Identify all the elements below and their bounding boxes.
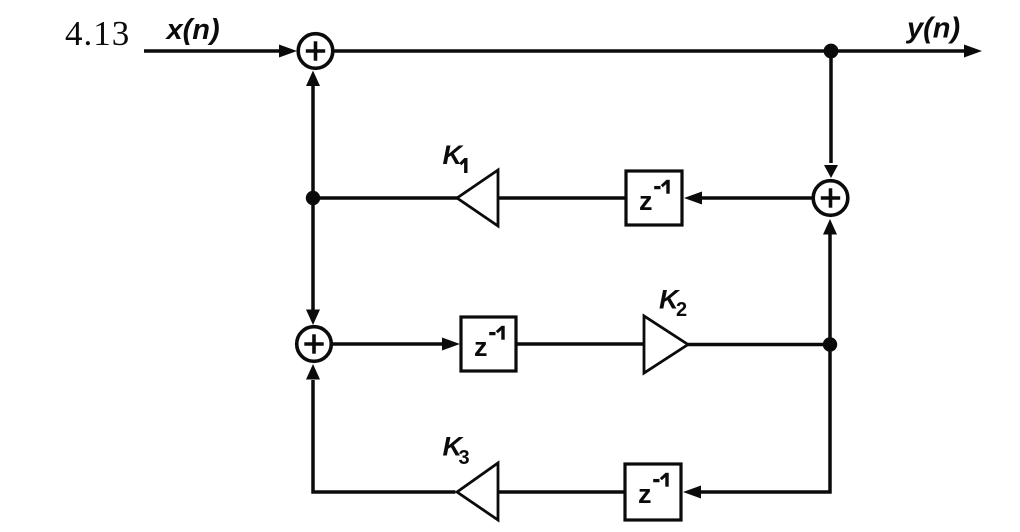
svg-text:2: 2 (676, 299, 687, 321)
delay element B3 z^-1 (625, 464, 681, 520)
label x(n) (165, 14, 220, 46)
wire: node N2 down into summer S3 (arrowhead down) (306, 198, 320, 325)
svg-text:z: z (639, 186, 653, 216)
summer S3 (297, 327, 332, 362)
svg-text:K: K (443, 140, 465, 170)
node N2 on left vertical (306, 191, 320, 205)
wire: delay B3 to gain K3 (498, 490, 625, 494)
wire: node N1 down into summer S2 (arrowhead down) (824, 54, 838, 178)
svg-text:4.13: 4.13 (65, 14, 130, 53)
node N1 on top rail (824, 44, 839, 59)
wire: summer S2 into delay B1 (arrowhead left) (684, 192, 812, 205)
wire: node N2 up into summer S1 (arrowhead up) (306, 71, 320, 199)
wire: node N3 down and left along bottom into delay B3 (arrowhead left) (683, 346, 830, 498)
wire: gain K1 to node N2 (315, 196, 457, 200)
svg-text:x(n): x(n) (165, 14, 220, 46)
label K1 (443, 140, 466, 173)
gain K2 (triangle pointing right) (644, 316, 688, 373)
gain K1 (triangle pointing left) (457, 170, 498, 226)
wire: node N3 up into summer S2 (arrowhead up) (823, 219, 837, 345)
svg-text:y(n): y(n) (905, 13, 960, 45)
wire: x(n) input into summer S1 (with arrowhead) (144, 45, 297, 58)
svg-text:z: z (638, 479, 652, 509)
summer S1 (298, 34, 333, 69)
wire: top rail from S1 to output y(n) (with arrowhead) (334, 45, 982, 58)
delay element B1 z^-1 (626, 171, 682, 225)
wire: gain K3 left and up into summer S3 (arrowhead up) (306, 364, 455, 492)
figure number label 4.13 (65, 14, 130, 53)
wire: delay B1 to gain K1 (498, 196, 626, 200)
wire: delay B2 to gain K2 (516, 342, 644, 346)
label K2 (659, 285, 687, 322)
node N3 on right vertical (823, 337, 837, 351)
delay element B2 z^-1 (461, 317, 516, 371)
wire: gain K2 to node N3 (688, 343, 830, 347)
label y(n) (905, 13, 960, 45)
gain K3 (triangle pointing left) (457, 463, 498, 520)
label K3 (443, 432, 470, 470)
svg-text:3: 3 (459, 447, 470, 469)
summer S2 (813, 181, 848, 216)
wire: summer S3 into delay B2 (arrowhead right) (332, 338, 460, 351)
svg-text:z: z (474, 332, 488, 362)
